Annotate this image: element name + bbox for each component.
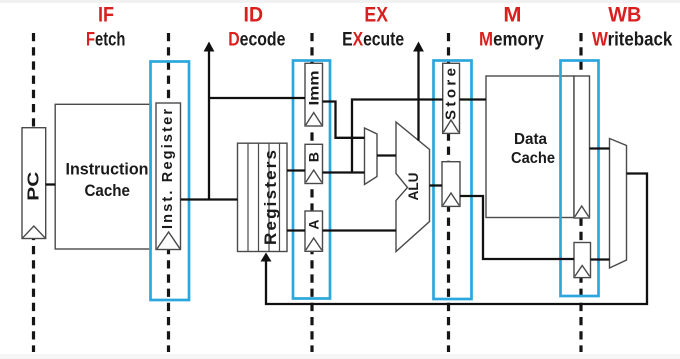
pipeline register box IF/ID (blue)	[151, 62, 190, 301]
svg-text:B: B	[306, 152, 322, 162]
svg-text:Writeback: Writeback	[592, 29, 673, 50]
pipeline register box M/WB (blue)	[561, 61, 599, 297]
wire WB load reg to mux	[590, 147, 610, 149]
svg-text:M: M	[503, 3, 521, 27]
svg-text:PC: PC	[25, 171, 42, 201]
svg-text:Registers: Registers	[261, 150, 280, 245]
mux (EX operand select)	[365, 128, 378, 185]
dashed stage line IF/ID	[167, 33, 170, 352]
svg-text:Cache: Cache	[84, 181, 130, 200]
wire WB alu reg to mux	[591, 258, 610, 260]
dashed stage line IF	[32, 33, 35, 352]
wire mux to ALU	[377, 154, 396, 156]
dashed stage line M/WB	[579, 33, 582, 352]
instruction cache	[55, 104, 151, 249]
inst. register	[156, 103, 181, 250]
wire PC to I-cache	[46, 183, 56, 185]
svg-text:Store: Store	[442, 68, 459, 120]
arrowhead up (EX)	[413, 42, 424, 52]
register Store	[442, 63, 459, 133]
svg-text:Instruction: Instruction	[66, 160, 149, 179]
wire ALU to M register	[430, 184, 443, 186]
wire B to store path	[352, 100, 443, 173]
arrowhead up (writeback)	[261, 253, 272, 262]
svg-text:Data: Data	[514, 131, 547, 148]
wire Store to data cache	[460, 98, 487, 100]
register A	[305, 211, 323, 251]
top faint band	[0, 0, 680, 3]
op ALU	[396, 122, 430, 252]
arrowhead up (ID)	[204, 42, 215, 52]
wire registers to B	[287, 169, 305, 171]
register WB (load data)	[574, 76, 590, 218]
svg-text:ID: ID	[244, 3, 264, 27]
svg-text:Cache: Cache	[511, 150, 555, 167]
wire writeback feedback	[266, 174, 647, 305]
register Imm	[305, 63, 323, 126]
svg-text:A: A	[306, 219, 322, 229]
wire A to ALU	[323, 229, 397, 231]
wire to Imm	[209, 97, 305, 99]
svg-text:IF: IF	[98, 3, 114, 27]
pipeline register box ID/EX (blue)	[293, 61, 330, 299]
svg-text:Fetch: Fetch	[86, 29, 125, 50]
register B	[305, 144, 323, 183]
register file	[238, 143, 288, 251]
wire branch up (ID)	[208, 50, 210, 200]
svg-text:Decode: Decode	[228, 29, 285, 50]
svg-text:EXecute: EXecute	[342, 29, 404, 50]
mux (writeback select)	[610, 139, 627, 269]
register WB (ALU result)	[574, 243, 591, 278]
wire B to mux	[323, 171, 365, 173]
dashed stage line ID/EX	[310, 33, 313, 352]
wire Imm to mux	[323, 102, 365, 138]
svg-text:ALU: ALU	[406, 173, 421, 201]
svg-text:Memory: Memory	[479, 29, 544, 50]
wire branch up (EX)	[417, 50, 419, 141]
pipeline register box EX/M (blue)	[434, 61, 472, 300]
wire inst.reg to registers	[181, 198, 238, 200]
bottom faint band	[0, 354, 680, 359]
svg-text:WB: WB	[608, 3, 641, 27]
wire registers to A	[287, 229, 305, 231]
register PC	[22, 128, 46, 239]
dashed stage line EX/M	[447, 33, 450, 352]
svg-text:EX: EX	[364, 3, 388, 27]
wire M register to WB register	[460, 196, 574, 259]
data cache	[486, 76, 574, 218]
register M (ALU result)	[442, 162, 460, 207]
svg-text:Imm: Imm	[306, 71, 322, 106]
